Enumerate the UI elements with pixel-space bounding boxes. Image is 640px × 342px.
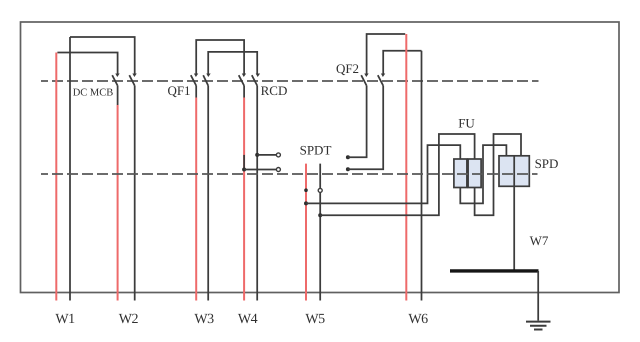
junction on W4+ xyxy=(242,168,246,172)
breaker DC MCB pole 1 xyxy=(112,74,119,105)
surge protector SPD xyxy=(499,156,529,187)
terminal dot QF2 pole2 stub xyxy=(346,167,350,171)
wire jumper W1- to DC MCB pole 2 xyxy=(70,37,135,74)
SPDT contact circle on W5- xyxy=(318,188,322,192)
wire W5- branch to fuse FU2 xyxy=(320,134,474,215)
svg-text:QF2: QF2 xyxy=(336,61,359,76)
svg-text:SPD: SPD xyxy=(535,156,559,171)
wire fuse FU2 to SPD right xyxy=(475,134,521,215)
wire fuse FU1 to SPD left xyxy=(460,145,506,203)
wire W3 negative (black) xyxy=(207,86,209,301)
SPD divider xyxy=(513,156,515,187)
SPDT contact dot on W5+ xyxy=(304,188,308,192)
wire W4 negative (black) xyxy=(256,86,258,301)
wire W2 positive (red) xyxy=(117,105,119,301)
breaker QF1 pole 1 xyxy=(191,74,198,98)
svg-text:RCD: RCD xyxy=(261,83,288,98)
terminal circle W4+ stub xyxy=(276,168,280,172)
wire W1 positive (red) xyxy=(55,53,57,301)
breaker RCD pole 2 xyxy=(252,74,260,86)
svg-text:W7: W7 xyxy=(530,233,549,248)
wire jumper QF1 pole2 to RCD pole2 xyxy=(208,52,257,74)
fuse FU1 xyxy=(454,159,467,188)
breaker QF1 pole 2 xyxy=(203,74,210,86)
svg-text:W6: W6 xyxy=(408,312,428,327)
wire jumper QF2 pole2 to W6- xyxy=(383,51,421,75)
junction W5+ to fuse branch xyxy=(304,201,308,205)
wire W4 positive (red) xyxy=(243,98,245,301)
svg-text:SPDT: SPDT xyxy=(300,143,332,158)
wire W7 from SPD to PE bar xyxy=(513,186,515,271)
wire link segment on W4+ between test rows xyxy=(243,155,245,170)
breaker RCD pole 1 xyxy=(239,74,246,98)
wire W1 negative (black) xyxy=(69,37,71,301)
junction W5- to fuse branch xyxy=(318,213,322,217)
svg-text:FU: FU xyxy=(458,116,475,131)
wire jumper QF2 pole1 to W6+ xyxy=(367,34,406,74)
ground symbol xyxy=(526,322,551,330)
wire QF2 pole1 lower lead xyxy=(348,86,367,158)
wire jumper QF1 pole1 to RCD pole1 xyxy=(196,40,244,74)
svg-text:W4: W4 xyxy=(238,312,258,327)
wire jumper W1+ to DC MCB pole 1 xyxy=(57,53,117,75)
svg-text:DC MCB: DC MCB xyxy=(73,88,114,99)
svg-text:W3: W3 xyxy=(194,312,214,327)
breaker QF2 pole 1 xyxy=(361,74,368,86)
breaker QF2 pole 2 xyxy=(378,74,385,86)
enclosure border xyxy=(21,22,620,293)
wire test stub from W4+ xyxy=(244,169,277,171)
terminal circle W4- stub xyxy=(276,153,280,157)
junction on W4- xyxy=(255,153,259,157)
wire W5+ branch to fuse FU1 xyxy=(306,145,460,203)
bus dashed line upper xyxy=(41,80,539,82)
wire W5 negative (black) xyxy=(319,164,321,301)
wire W3 positive (red) xyxy=(195,98,197,301)
wire QF2 pole2 lower lead xyxy=(348,86,383,170)
wire W2 negative (black) xyxy=(134,86,136,301)
PE busbar xyxy=(450,269,539,272)
svg-text:W2: W2 xyxy=(119,312,139,327)
svg-text:W1: W1 xyxy=(55,312,75,327)
wire W5 positive (red) xyxy=(305,164,307,301)
svg-text:W5: W5 xyxy=(305,312,325,327)
bus dashed line lower xyxy=(41,173,538,175)
wire W6 negative (black) xyxy=(421,51,423,301)
terminal dot QF2 pole1 stub xyxy=(346,155,350,159)
wire PE bar to ground xyxy=(537,271,539,321)
fuse FU2 xyxy=(468,159,481,188)
svg-text:QF1: QF1 xyxy=(167,83,190,98)
wire test stub from W4- xyxy=(257,154,276,156)
wire W6 positive (red) xyxy=(405,34,407,301)
breaker DC MCB pole 2 xyxy=(129,74,136,86)
